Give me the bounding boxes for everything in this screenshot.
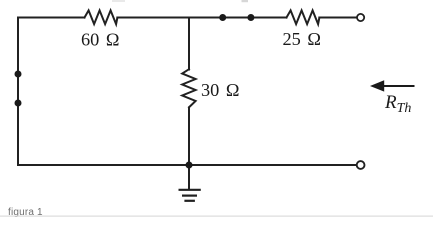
wire middle vertical lower — [188, 108, 190, 166]
faint cropped mark a — [112, 0, 125, 2]
svg-text:60 Ω: 60 Ω — [81, 30, 119, 50]
node dot top b — [247, 14, 254, 21]
svg-text:25 Ω: 25 Ω — [283, 29, 321, 49]
wire ground stem — [188, 165, 190, 190]
wire top-left segment — [18, 17, 85, 19]
wire top middle segment — [117, 17, 286, 19]
terminal top open circle — [357, 14, 364, 21]
resistor R 25ohm zigzag — [287, 10, 320, 24]
resistor R 60ohm zigzag — [85, 10, 118, 24]
wire top right segment — [319, 17, 356, 19]
svg-text:30 Ω: 30 Ω — [201, 80, 239, 100]
node dot ground junction — [186, 162, 193, 169]
wire middle vertical upper — [188, 18, 190, 70]
node dot top a — [219, 14, 226, 21]
node dot left lower — [15, 100, 22, 107]
terminal bottom open circle — [357, 161, 365, 169]
resistor R 30ohm zigzag — [182, 69, 195, 107]
node dot left upper — [15, 71, 22, 78]
wire left vertical — [17, 18, 19, 166]
svg-text:RTh: RTh — [384, 92, 411, 116]
bottom rule — [0, 216, 433, 217]
faint cropped mark b — [242, 0, 249, 2]
arrow RTh — [370, 80, 415, 91]
ground — [179, 190, 201, 201]
wire bottom horizontal — [18, 164, 356, 166]
